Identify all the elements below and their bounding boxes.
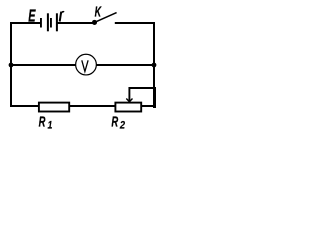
wire: middle left (node to voltmeter) [11,64,76,66]
node: right junction dot [152,63,157,68]
svg-text:E: E [28,7,36,26]
svg-text:2: 2 [119,120,125,131]
switch K: node dot [92,20,97,25]
wire: battery plate 4 to switch dot [57,22,95,24]
wire: right vertical [153,22,155,88]
voltmeter: circle [76,54,97,75]
label r [60,12,64,22]
rheostat R2: wiper shaft and loop wire to right vertical [129,88,155,102]
wire: bottom left corner to R1 [10,105,39,107]
wire: bottom between R1 and R2 [70,105,116,107]
svg-text:1: 1 [48,119,53,131]
battery: short plate 1 [40,18,42,28]
wire: top from left corner to battery plate 1 [10,22,40,24]
resistor R1: box [39,103,69,112]
rheostat R2: box [115,103,141,112]
rheostat R2: open arrowhead barbs [126,99,132,102]
voltmeter: letter V [82,60,88,71]
wire: right vertical thick part below wiper junction [153,87,156,108]
battery: tall plate 4 [56,13,58,31]
node: left junction dot [9,63,14,68]
switch K: lever [95,13,117,23]
svg-text:R: R [111,113,118,130]
wire: bottom from R2 to right corner [142,105,156,107]
battery: tall plate 2 [47,13,49,31]
wire: middle right (voltmeter to node) [97,64,155,66]
svg-text:K: K [95,3,102,20]
wire: left vertical [10,22,12,107]
wire: switch right segment to top-right corner [115,22,155,24]
battery: short plate 3 [50,18,52,28]
svg-text:R: R [39,113,46,130]
